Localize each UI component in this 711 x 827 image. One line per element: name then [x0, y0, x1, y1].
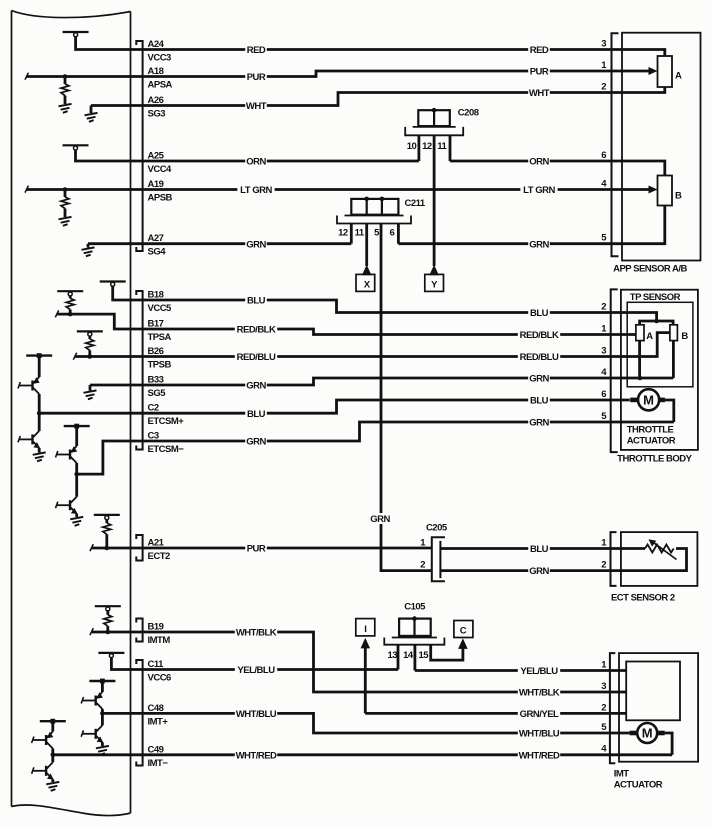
wire A21 PUR (ECT2 row): [92, 547, 432, 550]
node I box: [356, 619, 375, 636]
wire Q3 to C3 node: [75, 463, 78, 474]
transistor Q1: [18, 377, 40, 394]
resistor TPSA: [66, 298, 74, 309]
label BLU right (VCC5): [528, 307, 550, 319]
wire C208 pin 12 to Y: [433, 135, 436, 266]
svg-text:YEL/BLU: YEL/BLU: [520, 666, 558, 677]
wire C2 BLU (ETCSM+ row): [39, 400, 630, 413]
ground lead SG5: [89, 385, 92, 391]
label WHT/RED right: [518, 749, 560, 761]
arrow into X: [362, 265, 372, 276]
wire C211 pin 6: [397, 224, 400, 244]
ECT sensor 2 box: [621, 532, 698, 586]
wire Q1-Q2 link: [38, 413, 41, 431]
wire B19 WHT/BLK (IMTM row): [92, 632, 627, 692]
svg-text:ORN: ORN: [246, 157, 266, 168]
node X box: [356, 274, 375, 291]
label RED/BLK left: [235, 324, 277, 336]
wire Q7-Q8 link: [51, 755, 54, 763]
svg-text:2: 2: [601, 560, 606, 571]
supply bar ETCSM- driver: [64, 424, 90, 429]
wire B33 GRN (SG5 row): [90, 378, 673, 385]
svg-text:A: A: [646, 331, 653, 342]
svg-text:A21: A21: [148, 538, 165, 549]
svg-text:A26: A26: [148, 95, 164, 106]
svg-text:WHT/BLU: WHT/BLU: [236, 709, 277, 720]
label GRN right (ECT): [528, 565, 550, 577]
svg-text:IMTM: IMTM: [148, 635, 171, 646]
label WHT/BLK right: [518, 687, 560, 699]
junction dot A19/resistor: [63, 187, 68, 192]
label RED right: [528, 44, 550, 56]
wire Q3-Q4 link: [75, 474, 78, 497]
svg-text:WHT/BLU: WHT/BLU: [519, 729, 560, 740]
label BLU left (ETCSM+): [245, 408, 267, 420]
transistor Q2: [18, 431, 40, 448]
svg-text:15: 15: [419, 650, 430, 661]
potentiometer A (TP): [636, 325, 644, 341]
junction dot C48 node: [100, 711, 105, 716]
svg-text:ORN: ORN: [529, 157, 549, 168]
connector C208 jumper block: [418, 110, 450, 126]
svg-text:GRN: GRN: [529, 566, 549, 577]
label LT GRN left: [237, 184, 274, 196]
wire Q8 emitter to ground: [51, 779, 54, 782]
resistor APSB to ground wire: [64, 209, 67, 218]
label RED left: [245, 44, 267, 56]
wire B17 RED/BLK (TPSA row): [57, 314, 636, 334]
wire Q1 to C2 node: [38, 394, 41, 413]
svg-text:11: 11: [437, 141, 447, 152]
svg-text:C11: C11: [148, 659, 165, 670]
transistor Q6: [81, 725, 103, 742]
svg-text:GRN: GRN: [246, 239, 266, 250]
label GRN right (ETCSM-): [528, 417, 550, 429]
wire B26 RED/BLU (TPSB row): [75, 333, 670, 357]
ground SG4: [82, 247, 95, 256]
resistor APSB pulldown wire: [64, 190, 67, 198]
connector C211 housing tray: [337, 216, 411, 224]
svg-text:3: 3: [601, 39, 606, 50]
wire C105 pin 13: [397, 645, 400, 670]
wire IMT+ driver chain: [101, 681, 104, 692]
wire A19 LT GRN (APSB row): [27, 188, 651, 191]
wire Q5 to C48 node: [101, 709, 104, 713]
wire BLU to ECT sensor: [440, 547, 645, 550]
svg-text:C: C: [460, 626, 467, 637]
arrow APP A wiper: [649, 67, 658, 75]
label ORN right: [528, 156, 550, 168]
svg-text:BLU: BLU: [530, 396, 549, 407]
torn end tick ECT2: [90, 544, 93, 551]
motor IMT actuator: [637, 723, 657, 743]
resistor APSB: [61, 197, 69, 209]
torn end tick TPSA: [55, 310, 58, 317]
resistor IMTM: [104, 615, 112, 626]
svg-text:B: B: [675, 191, 682, 202]
node Y box: [425, 274, 444, 291]
svg-text:TPSA: TPSA: [148, 332, 172, 343]
IMT actuator box: [619, 653, 698, 762]
supply bar IMT+ driver: [89, 679, 115, 684]
svg-text:I: I: [364, 624, 366, 635]
svg-text:IMT: IMT: [614, 769, 630, 780]
svg-text:3: 3: [601, 346, 606, 357]
arrow into I: [361, 638, 371, 649]
label BLU left (VCC5): [245, 295, 267, 307]
connector bracket C11-IMT-: [136, 660, 142, 766]
svg-text:LT GRN: LT GRN: [523, 185, 555, 196]
ground SG3: [85, 113, 98, 122]
wire GRN to ECT sensor: [440, 569, 616, 572]
wire Q4 emitter to ground: [75, 514, 78, 517]
connector bracket throttle body: [611, 289, 618, 452]
transistor Q3: [56, 446, 78, 463]
label YEL/BLU left: [235, 664, 277, 676]
svg-text:THROTTLE BODY: THROTTLE BODY: [617, 454, 692, 465]
label GRN right (SG5): [528, 373, 550, 385]
wire GRN/YEL to I: [364, 647, 367, 714]
svg-text:GRN: GRN: [529, 418, 549, 429]
motor throttle actuator terminal right: [658, 398, 665, 403]
svg-text:GRN: GRN: [529, 239, 549, 250]
torn end tick IMTM: [90, 628, 93, 635]
svg-text:B19: B19: [148, 622, 164, 633]
svg-text:14: 14: [403, 650, 414, 661]
resistor APSA to ground wire: [64, 96, 67, 105]
wire IMT motor return: [665, 733, 673, 755]
resistor APSA: [61, 84, 69, 96]
junction dot TPSA: [68, 312, 73, 317]
label YEL/BLU right: [518, 665, 560, 677]
wire A18 PUR (APSA row): [27, 71, 651, 77]
label RED/BLK right: [518, 329, 560, 341]
motor IMT terminal left: [630, 731, 637, 736]
svg-text:A25: A25: [148, 151, 165, 162]
connector bracket ECT sensor: [611, 532, 617, 586]
label GRN left: [245, 238, 267, 250]
label BLU right (ECT): [528, 543, 550, 555]
wire C11 YEL/BLU right: [415, 669, 626, 672]
wire A27 GRN left (SG4 row): [88, 242, 351, 245]
junction dot C49 node: [51, 753, 56, 758]
power VCC6: [98, 653, 124, 658]
svg-text:6: 6: [390, 228, 395, 239]
transistor Q8: [32, 762, 54, 779]
svg-text:APSA: APSA: [148, 80, 173, 91]
svg-text:ECT2: ECT2: [148, 551, 171, 562]
connector C208 housing tray: [405, 127, 463, 135]
svg-text:C211: C211: [405, 198, 426, 209]
wire A25 ORN right: [450, 161, 665, 176]
wire C105 pin 15 to C: [431, 645, 463, 660]
connector C211 jumper block: [351, 199, 398, 215]
svg-text:IMT+: IMT+: [148, 716, 169, 727]
svg-text:TPSB: TPSB: [148, 360, 172, 371]
junction dot ECT2: [105, 546, 110, 551]
svg-text:YEL/BLU: YEL/BLU: [237, 665, 275, 676]
potentiometer B (APP): [658, 176, 673, 206]
wire TP pot B bottom: [672, 341, 675, 378]
junction dot C3 node: [74, 472, 79, 477]
label WHT/RED left: [235, 749, 277, 761]
transistor Q7: [32, 732, 54, 749]
ground lead SG4: [87, 244, 90, 248]
svg-text:APSB: APSB: [148, 193, 173, 204]
wire ETCSM+ driver chain: [38, 356, 41, 377]
net label GRN vertical: [369, 513, 391, 525]
resistor ECT2: [103, 523, 111, 534]
svg-text:A27: A27: [148, 233, 164, 244]
connector C105 jumper block: [399, 619, 431, 636]
svg-text:A: A: [675, 71, 682, 82]
svg-text:6: 6: [601, 389, 606, 400]
resistor IMTM lead: [106, 626, 109, 632]
wire GRN/YEL (IMT pin2 row): [365, 712, 626, 715]
svg-text:IMT−: IMT−: [148, 758, 169, 769]
label WHT/BLU right: [518, 728, 560, 740]
label GRN right: [528, 238, 550, 250]
ground Q6: [96, 746, 109, 755]
svg-text:WHT/RED: WHT/RED: [519, 750, 560, 761]
svg-text:ACTUATOR: ACTUATOR: [627, 436, 676, 447]
supply bar IMT- driver: [40, 719, 66, 724]
svg-text:VCC6: VCC6: [148, 673, 172, 684]
wire ECT2 pull-up: [105, 519, 108, 523]
svg-text:2: 2: [601, 703, 606, 714]
svg-text:ETCSM−: ETCSM−: [148, 444, 185, 455]
ground Q2: [33, 452, 46, 461]
power TPSA pull-up: [57, 291, 83, 296]
wire A26 WHT (SG3 row): [91, 87, 665, 106]
svg-text:A19: A19: [148, 179, 164, 190]
svg-text:GRN: GRN: [529, 374, 549, 385]
torn end tick TPSB: [73, 353, 76, 360]
label GRN/YEL right: [518, 708, 560, 720]
svg-text:THROTTLE: THROTTLE: [627, 425, 674, 436]
wire C208 pin 11: [449, 135, 452, 161]
svg-text:ETCSM+: ETCSM+: [148, 416, 185, 427]
wire Q7 to C49 node: [51, 749, 54, 755]
wire TP SG5 bus: [638, 341, 641, 378]
label WHT left: [245, 100, 267, 112]
svg-text:GRN: GRN: [246, 437, 266, 448]
junction dot TP VCC: [654, 319, 659, 324]
label GRN left (SG5): [245, 380, 267, 392]
svg-text:BLU: BLU: [530, 544, 549, 555]
connector C205 right half: [439, 541, 441, 578]
svg-text:WHT/RED: WHT/RED: [236, 750, 277, 761]
label LT GRN right: [520, 184, 557, 196]
wire GRN vertical (C211 pin5 to C205): [381, 224, 432, 571]
wire B18 BLU (VCC5 row): [113, 286, 657, 322]
svg-text:C208: C208: [458, 107, 479, 118]
ECM box (torn top and bottom edges): [12, 11, 131, 816]
torn end tick A19: [25, 186, 28, 193]
ground APSB: [59, 217, 72, 226]
junction dot A18/resistor: [63, 74, 68, 79]
wire TPSB pull-up: [88, 335, 91, 339]
svg-text:2: 2: [601, 302, 606, 313]
svg-text:B18: B18: [148, 290, 164, 301]
wire Q2 emitter to ground: [38, 448, 41, 453]
svg-text:10: 10: [407, 141, 417, 152]
connector bracket A24-SG4: [136, 41, 142, 251]
resistor TPSB: [86, 339, 94, 350]
potentiometer A (APP): [658, 56, 673, 87]
connector bracket APP sensor: [612, 33, 619, 256]
label WHT/BLK left: [235, 627, 277, 639]
svg-text:12: 12: [338, 228, 348, 239]
junction dot C211 right: [380, 197, 385, 202]
junction dot TPSB: [88, 354, 93, 359]
svg-text:A24: A24: [148, 39, 165, 50]
svg-text:B17: B17: [148, 319, 164, 330]
svg-text:C205: C205: [426, 523, 448, 534]
ground Q8: [46, 782, 59, 791]
label RED/BLU left: [235, 351, 277, 363]
connector bracket IMT actuator: [610, 653, 615, 763]
thermistor ECT (zigzag): [645, 545, 674, 553]
throttle body box: [621, 290, 698, 450]
svg-text:RED/BLK: RED/BLK: [237, 325, 276, 336]
ground Q4: [70, 517, 83, 526]
svg-text:SG3: SG3: [148, 109, 166, 120]
junction dot C208: [432, 108, 437, 113]
label WHT/BLU left: [235, 708, 277, 720]
svg-text:ACTUATOR: ACTUATOR: [614, 779, 663, 790]
arrow into Y: [429, 265, 439, 276]
svg-text:RED/BLU: RED/BLU: [237, 352, 276, 363]
svg-text:PUR: PUR: [247, 72, 266, 83]
svg-text:C48: C48: [148, 703, 164, 714]
power IMTM pull-up: [95, 606, 121, 611]
wire A24 RED (VCC3 row): [76, 36, 665, 56]
IMT solenoid block: [626, 662, 680, 721]
wire Q5-Q6 link: [101, 713, 104, 725]
svg-text:PUR: PUR: [530, 67, 549, 78]
svg-text:A18: A18: [148, 66, 164, 77]
junction dot C2 node: [37, 411, 42, 416]
label PUR right: [528, 66, 550, 78]
label RED/BLU right: [518, 351, 560, 363]
wire TP VCC distribution: [640, 321, 674, 325]
wire C48 WHT/BLU (IMT+ row): [102, 713, 629, 733]
svg-text:WHT/BLK: WHT/BLK: [519, 688, 560, 699]
label ORN left: [245, 156, 267, 168]
svg-text:12: 12: [422, 141, 432, 152]
svg-text:APP SENSOR A/B: APP SENSOR A/B: [613, 264, 687, 275]
svg-text:WHT: WHT: [529, 88, 550, 99]
wire throttle motor return: [665, 400, 674, 422]
svg-text:TP SENSOR: TP SENSOR: [630, 292, 681, 303]
svg-text:GRN: GRN: [370, 514, 390, 525]
label PUR left: [245, 71, 267, 83]
ground APSA: [59, 104, 72, 113]
svg-text:13: 13: [388, 650, 398, 661]
svg-text:VCC5: VCC5: [148, 303, 173, 314]
svg-text:SG5: SG5: [148, 388, 167, 399]
motor throttle actuator terminal left: [630, 398, 637, 403]
svg-text:2: 2: [601, 82, 606, 93]
wire C3 GRN (ETCSM- row): [77, 422, 674, 474]
wire C11 YEL/BLU left (VCC6 row): [111, 657, 398, 670]
power VCC3: [63, 32, 89, 37]
svg-text:B33: B33: [148, 375, 164, 386]
svg-text:RED: RED: [530, 45, 549, 56]
resistor TPSA lead: [69, 310, 72, 315]
wire A27 GRN right: [398, 206, 664, 244]
junction dot C105: [412, 616, 417, 621]
motor IMT terminal right: [658, 731, 665, 736]
APP sensor box: [622, 33, 701, 261]
power ECT2 pull-up: [94, 515, 120, 520]
svg-text:VCC4: VCC4: [148, 164, 173, 175]
wire ECT internal return: [617, 549, 687, 571]
node C box: [454, 621, 473, 638]
wire TPSA pull-up: [69, 295, 72, 298]
wire C49 WHT/RED (IMT- row): [53, 753, 672, 756]
wire C105 pin 14: [413, 645, 416, 671]
svg-text:11: 11: [355, 228, 365, 239]
ground lead SG3: [90, 106, 93, 114]
wire IMTM pull-up: [106, 610, 109, 615]
junction dot TP SG5: [638, 376, 643, 381]
svg-text:2: 2: [420, 560, 425, 571]
svg-text:WHT/BLK: WHT/BLK: [236, 628, 277, 639]
arrow into C: [458, 638, 468, 649]
motor throttle actuator: [638, 389, 659, 410]
label PUR left (ECT2): [245, 543, 267, 555]
svg-text:PUR: PUR: [247, 544, 266, 555]
power VCC5: [100, 282, 126, 287]
thermistor arrow: [653, 542, 677, 559]
wire ETCSM- driver chain: [75, 426, 78, 446]
resistor APSA pulldown wire: [64, 77, 67, 85]
svg-text:GRN/YEL: GRN/YEL: [520, 709, 559, 720]
supply bar ETCSM+ driver: [26, 353, 52, 358]
transistor Q4: [56, 497, 78, 514]
connector bracket A21: [136, 535, 142, 561]
svg-text:RED/BLK: RED/BLK: [520, 330, 559, 341]
svg-text:B26: B26: [148, 346, 164, 357]
label WHT right: [528, 87, 550, 99]
power TPSB pull-up: [77, 331, 103, 336]
wire C211 pin 12: [350, 224, 353, 244]
ground SG5: [84, 390, 97, 399]
svg-text:C49: C49: [148, 744, 164, 755]
label GRN left (ETCSM-): [245, 436, 267, 448]
svg-text:ECT SENSOR 2: ECT SENSOR 2: [611, 593, 675, 604]
resistor TPSB lead: [88, 350, 91, 356]
svg-text:LT GRN: LT GRN: [240, 185, 272, 196]
wire Q6 emitter to ground: [101, 742, 104, 746]
svg-text:M: M: [643, 393, 654, 408]
wire IMT- driver chain: [51, 721, 54, 731]
wire A25 ORN left (VCC4 row): [76, 149, 419, 161]
power VCC4: [63, 145, 89, 150]
svg-text:C3: C3: [148, 431, 159, 442]
wire C211 pin 11 to X: [365, 224, 368, 267]
junction dot C211 left: [364, 197, 369, 202]
svg-text:C2: C2: [148, 403, 159, 414]
potentiometer B (TP): [670, 325, 678, 341]
svg-text:RED: RED: [247, 45, 266, 56]
TP sensor inner box: [627, 302, 693, 387]
svg-text:BLU: BLU: [530, 308, 549, 319]
connector C205 left half: [432, 537, 445, 581]
svg-text:M: M: [642, 726, 653, 741]
